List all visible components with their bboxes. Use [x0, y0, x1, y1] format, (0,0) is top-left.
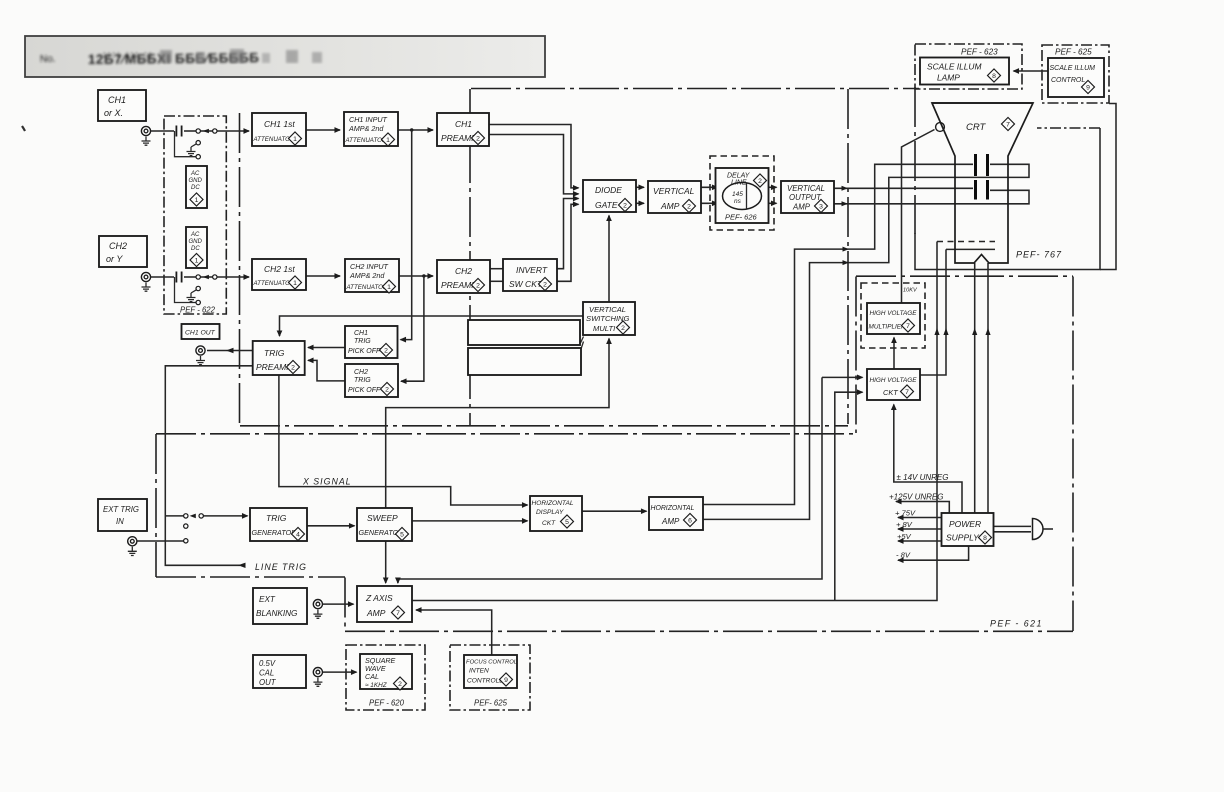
- svg-text:CH1 OUT: CH1 OUT: [185, 330, 216, 337]
- svg-text:IN: IN: [116, 517, 124, 526]
- svg-text:ATTENUATOR: ATTENUATOR: [253, 136, 295, 143]
- svg-text:ns: ns: [734, 198, 742, 205]
- svg-text:HORIZONTAL: HORIZONTAL: [532, 500, 574, 507]
- svg-text:DC: DC: [191, 246, 200, 252]
- svg-text:PEF - 625: PEF - 625: [1055, 48, 1092, 57]
- svg-text:+5V: +5V: [897, 532, 912, 541]
- svg-text:0.5V: 0.5V: [259, 659, 276, 668]
- svg-text:AC: AC: [190, 232, 200, 238]
- svg-text:- 8V: - 8V: [896, 551, 911, 560]
- svg-text:+125V UNREG: +125V UNREG: [889, 493, 943, 502]
- svg-text:PICK OFF: PICK OFF: [348, 387, 381, 394]
- svg-text:CH2: CH2: [354, 369, 368, 376]
- svg-text:+ 75V: + 75V: [895, 509, 916, 518]
- svg-text:+ 8V: + 8V: [896, 520, 913, 529]
- svg-text:CAL: CAL: [259, 669, 274, 678]
- svg-text:PEF- 767: PEF- 767: [1016, 250, 1062, 260]
- svg-text:OUT: OUT: [259, 678, 277, 687]
- svg-text:Z AXIS: Z AXIS: [365, 593, 393, 603]
- svg-text:CH1: CH1: [455, 119, 472, 129]
- svg-text:10KV: 10KV: [903, 288, 918, 294]
- svg-text:or X.: or X.: [104, 108, 123, 118]
- svg-text:HIGH VOLTAGE: HIGH VOLTAGE: [870, 377, 918, 384]
- svg-text:PEF - 623: PEF - 623: [961, 48, 998, 57]
- svg-text:± 14V UNREG: ± 14V UNREG: [897, 473, 949, 482]
- svg-text:VERTICAL: VERTICAL: [653, 186, 695, 196]
- svg-text:MULTIPLIER: MULTIPLIER: [869, 324, 907, 331]
- svg-text:SWEEP: SWEEP: [367, 513, 398, 523]
- svg-text:CH1 INPUT: CH1 INPUT: [349, 115, 388, 124]
- svg-text:PICK OFF: PICK OFF: [348, 348, 381, 355]
- svg-text:ATTENUATOR: ATTENUATOR: [345, 137, 387, 144]
- svg-text:TRIG: TRIG: [266, 513, 287, 523]
- svg-text:AMP: AMP: [366, 608, 386, 618]
- svg-text:PEF - 622: PEF - 622: [180, 306, 216, 315]
- svg-text:DC: DC: [191, 185, 200, 191]
- svg-text:AMP: AMP: [792, 203, 811, 212]
- svg-text:AC: AC: [190, 171, 200, 177]
- svg-text:DELAY: DELAY: [727, 173, 751, 180]
- svg-text:ATTENUATOR: ATTENUATOR: [346, 284, 388, 291]
- svg-text:EXT TRIG: EXT TRIG: [103, 505, 139, 514]
- svg-text:CH2: CH2: [109, 241, 127, 251]
- svg-text:TRIG: TRIG: [264, 348, 285, 358]
- svg-text:ATTENUATOR: ATTENUATOR: [253, 280, 295, 287]
- svg-text:GATE: GATE: [595, 200, 618, 210]
- svg-text:INVERT: INVERT: [516, 265, 548, 275]
- svg-text:145: 145: [732, 191, 743, 198]
- svg-text:EXT: EXT: [259, 595, 276, 604]
- svg-text:VERTICAL: VERTICAL: [787, 184, 825, 193]
- svg-text:≈ 1KHZ: ≈ 1KHZ: [365, 682, 388, 689]
- svg-text:CKT: CKT: [542, 520, 556, 527]
- svg-text:CH1 1st: CH1 1st: [264, 119, 295, 129]
- svg-text:INTEN: INTEN: [469, 668, 489, 675]
- svg-text:LINE TRIG: LINE TRIG: [255, 562, 307, 572]
- svg-text:CONTROLL: CONTROLL: [467, 678, 503, 685]
- svg-text:VERTICAL: VERTICAL: [589, 305, 626, 314]
- svg-text:CH2 1st: CH2 1st: [264, 264, 295, 274]
- svg-text:MULTI: MULTI: [593, 324, 616, 333]
- svg-text:CH2: CH2: [455, 266, 472, 276]
- svg-text:HORIZONTAL: HORIZONTAL: [651, 505, 695, 512]
- svg-text:PEF- 626: PEF- 626: [725, 213, 758, 222]
- svg-text:BLANKING: BLANKING: [256, 609, 298, 618]
- svg-text:AMP& 2nd: AMP& 2nd: [348, 124, 384, 133]
- svg-text:or Y: or Y: [106, 254, 123, 264]
- svg-text:AMP: AMP: [661, 517, 680, 526]
- svg-text:GND: GND: [189, 178, 203, 184]
- svg-text:CKT: CKT: [883, 388, 898, 397]
- svg-text:CONTROL: CONTROL: [1051, 77, 1085, 84]
- svg-text:CH2 INPUT: CH2 INPUT: [350, 262, 389, 271]
- svg-text:SUPPLY: SUPPLY: [946, 533, 980, 543]
- svg-text:CH1: CH1: [354, 330, 368, 337]
- svg-text:TRIG: TRIG: [354, 377, 371, 384]
- svg-text:PEF- 625: PEF- 625: [474, 699, 508, 708]
- svg-text:GND: GND: [189, 239, 203, 245]
- svg-text:OUTPUT: OUTPUT: [789, 193, 822, 202]
- svg-text:LINE: LINE: [731, 180, 747, 187]
- svg-text:POWER: POWER: [949, 519, 981, 529]
- svg-text:SCALE ILLUM: SCALE ILLUM: [927, 62, 981, 72]
- svg-text::::: ::: ::: :::: ::: ::: [103, 50, 153, 59]
- svg-text:CRT: CRT: [966, 122, 987, 133]
- svg-text:DISPLAY: DISPLAY: [536, 509, 564, 516]
- svg-text:No.: No.: [40, 54, 56, 65]
- svg-text:CAL: CAL: [365, 672, 379, 681]
- svg-text:X SIGNAL: X SIGNAL: [302, 477, 352, 487]
- svg-text:CH1: CH1: [108, 95, 126, 105]
- svg-text:LAMP: LAMP: [937, 73, 960, 83]
- svg-text:PEF - 620: PEF - 620: [369, 699, 405, 708]
- svg-text:AMP& 2nd: AMP& 2nd: [349, 271, 385, 280]
- svg-text:GENERATOR: GENERATOR: [252, 528, 297, 537]
- svg-text:FOCUS CONTROL: FOCUS CONTROL: [466, 660, 517, 666]
- svg-text:DIODE: DIODE: [595, 185, 622, 195]
- svg-text:PEF - 621: PEF - 621: [990, 619, 1043, 629]
- svg-text:AMP: AMP: [660, 201, 680, 211]
- svg-text:HIGH VOLTAGE: HIGH VOLTAGE: [870, 310, 918, 317]
- svg-text:SCALE ILLUM: SCALE ILLUM: [1050, 65, 1096, 72]
- svg-text:TRIG: TRIG: [354, 338, 371, 345]
